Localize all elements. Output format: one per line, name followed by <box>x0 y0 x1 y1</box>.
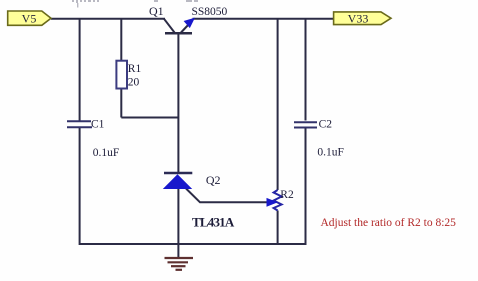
svg-text:TL431A: TL431A <box>192 215 235 230</box>
svg-text:SS8050: SS8050 <box>192 6 228 18</box>
svg-text:0.1uF: 0.1uF <box>317 147 344 159</box>
svg-text:Q1: Q1 <box>149 4 164 18</box>
svg-text:Q2: Q2 <box>206 173 221 187</box>
svg-text:Adjust the ratio of R2 to 8:25: Adjust the ratio of R2 to 8:25 <box>321 217 457 229</box>
svg-text:R1: R1 <box>128 63 142 75</box>
svg-text:V33: V33 <box>348 12 369 26</box>
svg-text:0.1uF: 0.1uF <box>93 147 120 159</box>
svg-text:C1: C1 <box>91 119 105 131</box>
svg-text:R2: R2 <box>280 189 294 201</box>
svg-text:C2: C2 <box>319 119 333 131</box>
svg-text:V5: V5 <box>22 12 37 26</box>
svg-text:20: 20 <box>128 77 140 89</box>
